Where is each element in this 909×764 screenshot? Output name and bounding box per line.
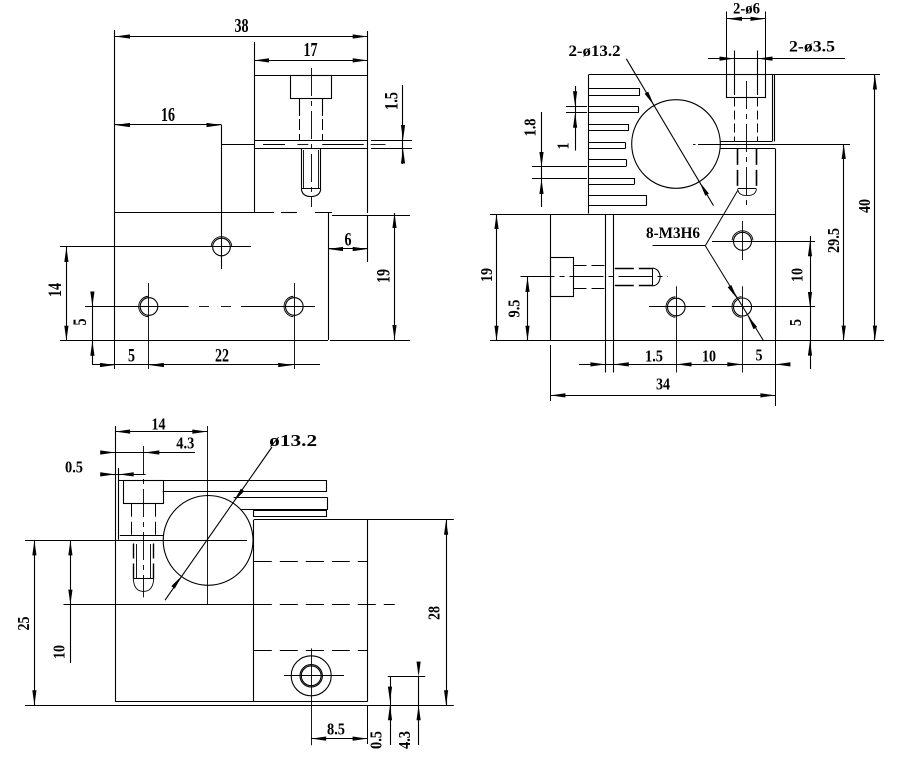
svg-text:ø13.2: ø13.2 [269, 431, 317, 450]
svg-text:16: 16 [161, 104, 175, 126]
svg-text:28: 28 [425, 606, 444, 620]
svg-text:8-M3H6: 8-M3H6 [646, 225, 700, 242]
svg-text:6: 6 [345, 230, 352, 251]
svg-text:38: 38 [235, 15, 249, 37]
svg-text:5: 5 [756, 346, 763, 365]
svg-text:22: 22 [215, 346, 229, 367]
svg-text:5: 5 [786, 319, 805, 326]
svg-text:5: 5 [128, 346, 135, 367]
svg-text:2-ø6: 2-ø6 [733, 1, 760, 18]
svg-text:2-ø13.2: 2-ø13.2 [569, 43, 621, 60]
svg-text:34: 34 [656, 375, 670, 394]
svg-text:4.3: 4.3 [176, 434, 194, 453]
svg-text:25: 25 [14, 617, 33, 631]
svg-text:29.5: 29.5 [824, 228, 843, 253]
svg-text:14: 14 [152, 415, 166, 434]
svg-text:0.5: 0.5 [65, 458, 83, 477]
svg-text:19: 19 [374, 269, 395, 283]
svg-text:9.5: 9.5 [505, 300, 524, 318]
svg-text:8.5: 8.5 [327, 720, 345, 739]
svg-text:40: 40 [855, 199, 874, 213]
svg-text:10: 10 [702, 347, 716, 366]
svg-text:1: 1 [554, 143, 573, 150]
svg-text:14: 14 [45, 283, 66, 297]
svg-text:10: 10 [50, 645, 69, 659]
svg-text:2-ø3.5: 2-ø3.5 [789, 39, 835, 56]
svg-text:1.8: 1.8 [521, 119, 540, 137]
svg-text:19: 19 [477, 268, 496, 282]
svg-text:10: 10 [788, 268, 807, 282]
svg-text:4.3: 4.3 [395, 731, 414, 749]
svg-text:0.5: 0.5 [367, 731, 386, 749]
svg-text:1.5: 1.5 [645, 347, 663, 366]
svg-text:1.5: 1.5 [382, 92, 403, 110]
svg-text:17: 17 [304, 39, 318, 61]
svg-text:5: 5 [70, 319, 91, 326]
